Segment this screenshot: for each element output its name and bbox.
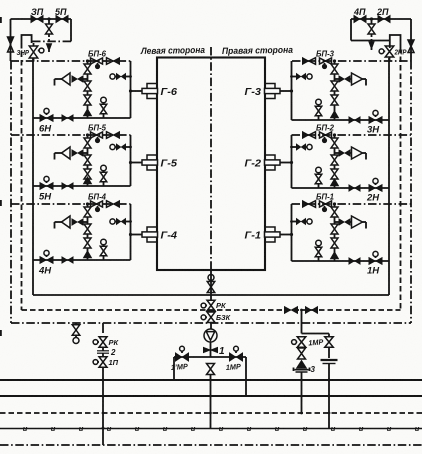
check chain [84,252,91,261]
valve 2Н b [349,185,360,191]
gauge line right [290,144,312,150]
wire bypass top [174,356,246,358]
label 5P [55,7,67,17]
valve 1Н b [349,258,360,264]
valve relief out right [335,76,352,82]
valve relief out [72,150,88,156]
valve chain lower [84,238,91,252]
valve ZP [31,16,43,23]
valve 2Н hand [369,178,382,191]
valve chain lower right [331,169,338,180]
wire block bus [130,61,132,118]
valve БП-5 a [91,132,103,143]
valve БП-3 b [303,58,316,65]
valve outlet [207,282,215,293]
valve chain upper [84,202,91,221]
accumulator [321,360,338,364]
valve chain upper [84,59,91,78]
valve relief out [72,76,88,82]
svg-text:Г-5: Г-5 [161,158,178,170]
wire top-left leg [10,19,12,61]
drop gauge [100,97,107,118]
svg-text:5Н: 5Н [39,192,52,203]
gauge outlet [208,275,214,281]
svg-text:и: и [303,424,308,433]
relief valve [55,216,71,229]
label 3 [311,365,316,374]
valve BZK [201,312,215,323]
svg-text:4П: 4П [353,7,366,17]
pump [204,329,217,342]
svg-text:Г-3: Г-3 [245,86,262,98]
valve 2P [378,16,390,23]
svg-text:3Н: 3Н [367,125,380,136]
valve relief out right [335,150,352,156]
restrictor 2 [97,347,109,357]
valve БП-4 a [91,201,103,212]
svg-text:Правая сторона: Правая сторона [222,45,293,56]
arrow vent left [47,44,51,52]
wire block bus right [291,204,293,261]
wire 1Н [292,260,390,262]
svg-text:2: 2 [110,348,116,357]
svg-text:5П: 5П [55,7,67,17]
valve chain mid [84,79,91,96]
svg-text:БП-6: БП-6 [88,50,107,59]
drop gauge [100,239,107,260]
valve chain lower right [331,95,338,112]
valve recirc b [306,307,318,314]
arrow vent right [369,42,373,50]
wire top-left right leg [70,19,72,41]
label БП-2 [316,124,335,133]
valve БП-2 b [303,132,316,139]
label Г-3 [245,86,262,98]
svg-text:и: и [51,424,56,433]
valve RK main [201,300,215,311]
check valve left [8,37,14,52]
wire pump out [210,342,212,357]
svg-text:Левая сторона: Левая сторона [140,45,205,56]
connector Г-6 [129,84,158,99]
wire 3 down [300,373,303,415]
wire top-left header [11,18,72,20]
meter 1 [204,348,218,353]
label ZP [31,7,44,17]
svg-text:6Н: 6Н [39,124,52,135]
label 4Н [38,266,52,277]
svg-text:и: и [23,424,28,433]
svg-text:Г-2: Г-2 [245,158,262,170]
valve БП-6 a [91,58,103,69]
wire dash-dot link [32,40,71,42]
label Г-5 [161,158,178,170]
wire bypass right leg [245,357,247,396]
svg-text:4Н: 4Н [38,266,52,277]
label 5Н [39,192,52,203]
valve 5P [56,16,68,23]
valve chain lower [84,169,91,179]
wire main 1 [0,379,422,381]
check chain right [331,253,338,262]
gauge line right [290,219,312,225]
valve БП-6 b [107,58,120,65]
wire accum down [328,364,331,429]
relief valve right [352,147,367,160]
svg-text:ЗП: ЗП [31,7,44,17]
wire RK column bottom [102,367,105,445]
label БП-5 [88,124,107,133]
label 3Н [367,125,380,136]
valve RK left [93,337,107,348]
label Г-6 [161,86,178,98]
svg-text:1МР: 1МР [226,362,243,372]
check chain right [331,112,338,121]
check chain right [331,180,338,189]
svg-text:и: и [163,424,168,433]
wire block bus right [291,135,293,188]
valve ZNR [29,43,44,61]
label Г-1 [245,230,262,242]
wire manifold centerline [210,47,212,270]
svg-text:и: и [387,424,392,433]
wire link right [351,40,390,42]
drop gauge right [315,167,322,188]
valve chain lower right [331,238,338,253]
wire header bus right [292,60,411,62]
svg-text:Г-4: Г-4 [161,230,178,242]
valve chain upper right [331,59,338,78]
svg-text:РК: РК [216,301,227,310]
valve 3 [294,361,310,372]
valve vent right [368,17,375,42]
valve chain mid right [331,222,338,239]
wire recirc down [300,309,303,334]
valve 3Н hand [369,110,382,123]
label БП-6 [88,50,107,59]
valve relief out right [335,219,352,225]
label 6Н [39,124,52,135]
svg-text:Г-1: Г-1 [245,230,262,242]
label 1 [219,346,225,357]
valve БП-3 a [320,58,332,69]
wire dashed frame right [400,48,402,310]
connector Г-4 [129,227,158,242]
svg-text:1МР: 1МР [308,337,325,347]
valve БП-4 b [107,201,120,208]
wire block bus [130,204,132,260]
gauge line [110,144,132,150]
connector Г-5 [129,155,158,170]
label 4P [353,7,366,17]
connector Г-1 [265,227,294,242]
wire 3Н [292,119,390,121]
valve accum [325,337,334,358]
svg-text:2НР: 2НР [394,50,407,57]
svg-text:1П: 1П [109,358,119,367]
valve 4Н hand [40,250,53,263]
svg-text:Г-6: Г-6 [161,86,178,98]
connector Г-2 [265,155,294,170]
valve vent left [46,17,53,44]
wire solid frame right [388,58,390,295]
label 2P [376,7,389,17]
valve 3Н b [349,117,360,123]
svg-text:БП-5: БП-5 [88,124,107,133]
valve below recirc [298,348,306,359]
label RK left [109,338,120,347]
node right header box [390,35,401,48]
wire top-right header [351,18,411,20]
wire main 3 dashed [0,412,422,414]
valve chain upper [84,133,91,152]
drop gauge right [315,240,322,261]
valve 6Н hand [40,108,53,121]
valve БП-1 b [303,201,316,208]
label ZNR [17,50,30,57]
svg-text:и: и [275,424,280,433]
relief valve [55,147,71,160]
wire 2Н [292,187,390,189]
valve 2NR [379,46,394,61]
wire manifold outlet [210,270,212,300]
gauge drain left [73,338,79,344]
wire 5Н [33,185,131,187]
wire main 2 [0,395,422,397]
valve chain lower [84,95,91,110]
svg-text:2П: 2П [376,7,389,17]
valve center drain [207,364,215,375]
label 1MR left [171,362,190,372]
svg-text:БЗК: БЗК [216,313,231,322]
svg-text:и: и [107,424,112,433]
gauge line right [290,74,312,80]
valve 5Н b [62,183,73,189]
valve 4Н b [62,257,73,263]
wire bypass left leg [173,357,175,380]
relief valve right [352,216,367,229]
wire main 5 dash-dot [0,444,422,446]
gauge line [110,219,132,225]
label 1MR recirc [308,337,325,347]
wire header bus left [11,60,131,62]
label 1P [109,358,119,367]
wire 6Н [33,117,131,119]
valve БП-5 b [107,132,120,139]
svg-text:1Н: 1Н [367,266,380,277]
check chain [84,178,91,187]
relief valve right [352,73,367,86]
svg-text:и: и [359,424,364,433]
label Г-2 [245,158,262,170]
wire dashed frame bottom [22,309,401,311]
valve 1MR right [230,346,243,361]
valve recirc a [285,307,298,314]
wire RK column top [102,323,104,333]
valve drain left [72,323,80,337]
svg-text:и: и [219,424,224,433]
wire 4Н [33,259,131,261]
svg-text:1’МР: 1’МР [171,362,190,372]
svg-text:РК: РК [109,338,120,347]
wire block bus [130,135,132,186]
svg-text:1: 1 [219,346,225,357]
wire block БП-5 top [11,134,131,136]
wire block БП-2 top [292,134,412,136]
label RK main [216,301,227,310]
wire recirc branch [302,334,330,338]
valve chain mid right [331,153,338,170]
svg-text:и: и [247,424,252,433]
label Г-4 [161,230,178,242]
svg-text:и: и [191,424,196,433]
valve chain mid [84,222,91,239]
valve chain upper right [331,133,338,152]
valve 6Н b [62,115,73,121]
node left header box [22,35,32,43]
svg-text:и: и [79,424,84,433]
label right side [222,45,293,56]
valve 1P [93,357,107,368]
label 2NR [394,50,407,57]
svg-text:БП-4: БП-4 [88,193,107,202]
wire top-right left leg [350,19,352,41]
label BZK [216,313,231,322]
wire center drain [209,375,212,429]
connector Г-3 [265,84,294,99]
wire dash-dot outer frame right [410,61,412,323]
wire block БП-4 top [11,203,131,205]
wire dash-dot outer frame bottom [11,322,411,324]
label 1MR right [226,362,243,372]
valve 1MR left [176,346,189,361]
wire block БП-1 top [292,203,412,205]
wire BZK-pump [210,323,212,330]
relief valve [55,73,71,86]
wire RK-BZK [210,311,212,312]
node edge marks [0,17,2,336]
valve 1MR recirc [292,337,306,348]
svg-text:2Н: 2Н [366,193,380,204]
valve 1Н hand [369,251,382,264]
label 1Н [367,266,380,277]
label БП-3 [316,50,335,59]
wire solid frame left [32,58,34,295]
label БП-1 [316,193,335,202]
manifold body [157,58,265,271]
drop gauge right [315,99,322,120]
wire top-right leg [410,19,412,61]
valve БП-1 a [320,201,332,212]
wire block bus right [291,61,293,120]
valve chain upper right [331,202,338,221]
label БП-4 [88,193,107,202]
valve 4P [354,16,366,23]
label 2 [110,348,116,357]
valve relief out [72,219,88,225]
check chain [84,110,91,119]
drop gauge [100,165,107,186]
svg-text:ЗНР: ЗНР [17,50,30,57]
wire dashed frame left [21,43,23,310]
check valve right [408,40,414,53]
valve БП-2 a [320,132,332,143]
wire dash-dot outer frame left [10,61,12,323]
valve chain mid right [331,79,338,96]
gauge line [110,74,132,80]
svg-text:и: и [415,424,420,433]
label 2Н [366,193,380,204]
wire main 4 marked [0,424,422,433]
valve chain mid [84,153,91,170]
label left side [140,45,205,56]
svg-text:и: и [135,424,140,433]
svg-text:и: и [331,424,336,433]
valve 5Н hand [40,176,53,189]
svg-text:3: 3 [311,365,316,374]
wire solid frame bottom [33,294,389,296]
